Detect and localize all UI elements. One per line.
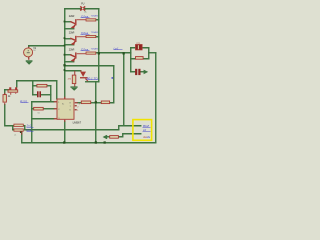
- svg-text:LM567: LM567: [73, 120, 82, 124]
- svg-text:P0.1 TO: P0.1 TO: [87, 76, 99, 80]
- svg-text:T2SA95: T2SA95: [91, 31, 99, 34]
- svg-text:22kR: 22kR: [69, 48, 75, 51]
- svg-text:T2SA95: T2SA95: [91, 14, 99, 17]
- svg-text:Lp1: Lp1: [114, 46, 119, 50]
- svg-text:FU: FU: [81, 3, 84, 6]
- svg-text:2u2: 2u2: [26, 124, 32, 128]
- svg-text:22kR: 22kR: [69, 15, 75, 18]
- svg-text:AaVa: AaVa: [143, 135, 150, 139]
- svg-text:T2SA95: T2SA95: [91, 48, 99, 51]
- svg-text:R101: R101: [20, 99, 28, 103]
- svg-text:22kR: 22kR: [69, 32, 75, 35]
- svg-text:Q2sa: Q2sa: [81, 48, 89, 52]
